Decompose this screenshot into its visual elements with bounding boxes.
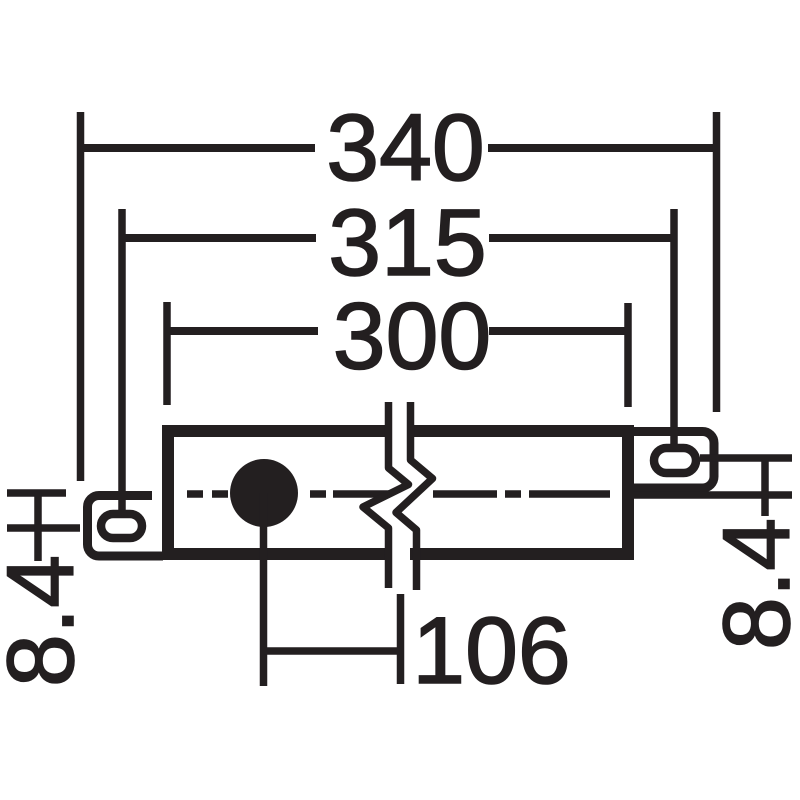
centerline leader under right tab: [633, 491, 792, 499]
svg-text:8.4: 8.4: [0, 555, 94, 687]
dimension 340 extension line left: [77, 112, 85, 481]
8.4 right dimension line vertical: [761, 459, 769, 516]
centerline dash after circle: [310, 490, 326, 498]
break line left zigzag: [363, 402, 409, 588]
right tab slot: [654, 448, 696, 473]
break line right zigzag: [396, 402, 433, 590]
106 extension line from break: [397, 594, 405, 684]
svg-text:106: 106: [412, 598, 571, 704]
centerline long dash to break: [333, 490, 390, 498]
8.4 left leader at slot level: [7, 524, 80, 532]
dimension 315 line right segment: [489, 234, 674, 242]
dimension 315 extension line left: [118, 209, 126, 512]
svg-text:315: 315: [328, 190, 487, 296]
svg-text:300: 300: [333, 284, 492, 390]
106 extension line from circle: [260, 493, 268, 686]
lamp socket circle: [230, 459, 298, 527]
8.4 left dimension line vertical: [34, 493, 42, 561]
centerline long dash to right edge: [529, 490, 610, 498]
left mounting tab outline: [88, 496, 164, 557]
left tab slot: [101, 514, 142, 538]
svg-text:8.4: 8.4: [704, 518, 800, 650]
centerline dash short 1: [187, 490, 203, 498]
106 dimension line: [264, 647, 401, 655]
8.4 right leader at slot level: [700, 454, 792, 462]
dimension 300 line right segment: [489, 327, 628, 335]
dimension 340 extension line right: [713, 112, 721, 412]
dimension 340 line left segment: [81, 144, 316, 152]
fixture body left half outline: [168, 431, 390, 554]
svg-text:340: 340: [326, 95, 485, 201]
dimension 300 extension line left: [163, 302, 171, 405]
centerline long dash after break: [433, 490, 497, 498]
fixture body right half outline: [410, 431, 628, 554]
dimension 340 line right segment: [488, 144, 717, 152]
centerline dot: [505, 490, 521, 498]
dimension 315 extension line right: [670, 209, 678, 452]
dimension 315 line left segment: [122, 234, 316, 242]
8.4 left leader at centerline level: [7, 489, 66, 497]
dimension 300 extension line right: [624, 303, 632, 407]
centerline dash short 2: [212, 490, 228, 498]
right mounting tab outline: [633, 432, 714, 489]
dimension 300 line left segment: [167, 327, 318, 335]
